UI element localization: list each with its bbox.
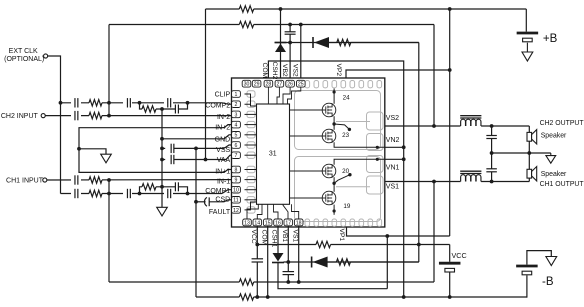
wire bottom bootstrap diode row [284,261,419,263]
pin 7 box [232,152,241,159]
terminal EXT CLK [44,54,48,58]
wire Q24-Q23 mid node (VS2) [333,116,335,130]
wire VAA row right [174,159,226,161]
transistor Q23 [322,129,336,143]
wire VS2 row [385,125,461,127]
node VB1 / rail1 [286,280,290,284]
node VN1 [402,157,406,161]
ground symbol GND net [157,207,168,216]
svg-text:-B: -B [542,276,554,288]
node EXT CLK / COMP2 net [59,101,63,105]
wire L1 to speaker [481,181,529,183]
node VSS dropper [194,147,198,151]
svg-text:23: 23 [342,132,350,139]
terminal CH2 INPUT [41,114,45,118]
pin 30 box (top) [242,80,251,87]
node GND row [160,137,164,141]
svg-text:VCC: VCC [250,230,257,244]
wire VS2 tap diagonal [334,124,349,129]
node COMP2 RC left [138,101,142,105]
svg-text:11: 11 [233,198,238,204]
capacitor C-C1a [71,189,81,199]
svg-text:+B: +B [543,33,558,45]
node IN-2 junction [107,114,111,118]
svg-text:VB1: VB1 [281,230,288,243]
svg-text:COMP2: COMP2 [205,102,230,109]
gray trace VS2 pad [336,121,370,123]
battery VCC [439,262,461,265]
capacitor C-OUT1 [491,153,493,169]
node VS1 / rail1 [297,280,301,284]
svg-text:14: 14 [254,220,260,226]
transistor Q20 [322,164,336,178]
resistor R-IN1 [89,176,102,184]
pin 16 box (bottom) [274,219,283,226]
speaker CH1 [528,153,530,169]
wire GND net vertical [161,109,163,207]
svg-text:1: 1 [235,92,238,98]
svg-text:18: 18 [296,220,302,226]
pin 9 box [232,176,241,183]
diode D-B2 (bootstrap, pointing left) [312,37,314,48]
wire CSD to pin 11 [209,200,231,202]
wire Q23 source to VN2 [334,142,385,147]
wire CSH1 link vertical [386,236,388,289]
svg-text:VS1: VS1 [291,230,298,243]
node VB1 / diode row [286,260,290,264]
wire VAA dropper vertical [205,9,207,160]
svg-text:28: 28 [266,82,272,88]
svg-text:IN+2: IN+2 [215,124,230,131]
svg-text:CH2 OUTPUT: CH2 OUTPUT [540,120,584,127]
gray trace VS1 pad [336,186,370,188]
wire COMP1 row [61,193,223,195]
diode D-CSH2 (up) [275,42,287,44]
svg-text:VN2: VN2 [386,137,400,144]
wire +B riser [449,9,451,236]
node VS2 tap [299,23,303,27]
wire Q20-Q19 mid node (VS1) [333,177,335,192]
pin 8 box [232,166,241,173]
svg-text:17: 17 [285,220,291,226]
node COMP1 RC left [138,192,142,196]
node VCC cap / -B rail [255,295,259,299]
svg-text:7: 7 [235,153,238,159]
node IN-1 junction [107,178,111,182]
wire pins 28-25 to block 31 [267,87,269,104]
pin 15 box (bottom) [263,219,272,226]
svg-text:VS1: VS1 [386,184,399,191]
pin 26 box (top) [286,80,295,87]
battery -B [516,265,538,268]
capacitor C-C2d (branch) [174,105,176,114]
svg-text:16: 16 [275,220,281,226]
wire VS1 tap diagonal [334,175,350,184]
svg-text:CH2 INPUT: CH2 INPUT [1,113,39,120]
svg-text:VSS: VSS [216,147,230,154]
wire left pins to block 31 [245,94,257,106]
node COM / -B rail [266,295,270,299]
pin 18 box (bottom) [294,219,303,226]
pin 4 box [232,121,241,128]
node VP1 / CSH1 link [385,234,389,238]
node zobel CH1 [490,180,494,184]
wire VP2 stub and row [346,70,450,78]
capacitor C-IN1 [71,175,81,185]
wire COMP2 row [61,102,223,104]
wire pins 13-18 to block 31 [247,204,258,219]
wire IN+2 row [79,125,232,173]
wire VSS row left [162,147,165,149]
ground symbol -B [546,257,557,266]
node IN+ ground tap [77,147,81,151]
svg-text:26: 26 [287,82,293,88]
capacitor C-C1d (branch) [174,182,176,191]
svg-text:4: 4 [235,123,238,129]
pin 27 box (top) [275,80,284,87]
wire CH1 input row [47,179,232,181]
svg-text:25: 25 [298,82,304,88]
svg-text:30: 30 [244,82,250,88]
pin 14 box (bottom) [253,219,262,226]
capacitor C-VSS [170,144,172,153]
node VB2 / diode row [288,41,292,45]
node VAA cap [160,158,164,162]
speaker CH2 [528,126,530,132]
wire to signal ground [79,149,106,154]
capacitor C-C1b (series) [123,189,132,199]
inductor L2 [461,119,481,126]
ground symbol +B [526,43,528,52]
wire VN1 row [385,158,404,160]
resistor R-VAA (top rail) [239,6,253,12]
wire VB2 to pin 26 [289,43,291,81]
driver IC block 31 [257,104,290,204]
terminal CH1 INPUT [43,178,47,182]
resistor R-B2 [329,42,337,44]
node VN2 [402,145,406,149]
wire branch return 1 [178,187,187,194]
capacitor C-C2b (series) [123,98,132,108]
node mid rail left [490,151,494,155]
svg-text:VAA: VAA [217,157,231,164]
wire VS2 to pin 25 [300,25,302,81]
wire CH2 input row [45,115,231,117]
svg-text:24: 24 [343,95,351,102]
node VCC battery / -B rail [448,295,452,299]
svg-text:27: 27 [277,82,283,88]
wire VSS to CSD vertical [195,148,197,297]
wire COMP1 upper branch [140,187,143,194]
pin 1 box [232,91,241,98]
svg-text:Speaker: Speaker [541,133,567,140]
resistor R-FB2 [239,21,253,29]
svg-text:15: 15 [265,220,271,226]
pin 13 box (bottom) [243,219,252,226]
svg-text:CLIP: CLIP [215,92,231,99]
ground symbol signal input [101,154,112,163]
svg-text:CSH2: CSH2 [271,62,278,80]
wire VN2 row [385,146,404,148]
svg-text:COM: COM [260,230,267,246]
node VN bus / -B rail [402,295,406,299]
wire VS1 pin 18 down [298,226,300,282]
svg-text:IN-1: IN-1 [217,178,230,185]
capacitor C-OUT2 [491,126,493,136]
pin 2 box [232,101,241,108]
diode D-CSH1 (down) [272,262,284,264]
wire feedback rail 1 (VS1-CH1) [109,281,434,283]
svg-text:IN-2: IN-2 [217,114,230,121]
node VS2 row junction [432,124,436,128]
pin 6 box [232,142,241,149]
resistor R-VCC [316,241,331,249]
node top-rail / CSH2 [279,7,283,11]
svg-text:IN+1: IN+1 [215,169,230,176]
wire L2 to speaker [481,125,529,127]
pin 12 box [232,207,241,214]
node COMP1 junction [107,192,111,196]
wire VS2 feedback row [109,24,434,26]
wire branch return [178,103,187,109]
node top-rail / +B drop [448,7,452,11]
resistor R-VSS [239,293,253,301]
pin 25 box (top) [297,80,306,87]
wire CSH1 pin 16 down [277,226,279,254]
pin 11 box [232,197,241,204]
wire Q20 source to VN1 [334,159,385,165]
node VCC row / riser [417,243,421,247]
wire COM rail to VN bus [268,61,403,147]
pin 17 box (bottom) [284,219,293,226]
wire bootstrap row 1 to riser [350,261,418,263]
svg-text:VP2: VP2 [335,64,342,77]
svg-text:EXT CLK: EXT CLK [9,48,38,55]
wire VCC row [257,244,449,246]
capacitor C-VAA [170,155,172,164]
svg-text:12: 12 [233,208,239,214]
resistor R-FB1 [239,278,253,286]
node COMP1 branch [160,185,164,189]
wire CSH1 below diode [278,263,387,289]
wire VCC pin 14 down [256,226,258,259]
svg-text:8: 8 [235,167,238,173]
battery +B [517,32,539,35]
wire +B top rail [206,8,527,10]
node VCC row [255,243,259,247]
svg-text:CH1 OUTPUT: CH1 OUTPUT [540,181,584,188]
wire COMP2 lower branch [140,103,143,109]
module lead-frame pads (gray) [247,81,383,227]
svg-text:9: 9 [235,178,238,184]
node COMP2 junction [107,101,111,105]
resistor R-C1b (branch) [142,184,156,190]
svg-text:GND: GND [215,137,231,144]
IC module outline [232,78,385,227]
svg-text:CH1 INPUT: CH1 INPUT [6,177,44,184]
node COMP1 RC right [186,192,190,196]
svg-text:COM: COM [261,63,268,79]
wire VP1 stub and row [347,227,450,236]
svg-text:(OPTIONAL): (OPTIONAL) [4,56,44,63]
wire speaker mid rail [492,152,551,154]
wire VCC battery to -B rail [449,272,451,297]
wire feedback to CH2 input vertical [108,25,110,116]
svg-text:6: 6 [235,143,238,149]
node CSD tap [194,200,198,204]
wire -B rail corner [525,275,528,297]
pin 10 box [232,186,241,193]
svg-text:COMP1: COMP1 [205,188,230,195]
svg-text:VS2: VS2 [291,64,298,77]
wire VS1 feedback vertical [433,182,435,283]
wire -B top to ground [527,251,551,265]
svg-text:3: 3 [235,112,238,118]
wire VCC battery top [449,245,451,262]
wire top bootstrap diode row [275,42,419,44]
wire EXT CLK [48,56,61,194]
wire VB1 pin 17 down [287,226,289,262]
diode D-B1 (bootstrap, pointing left) [311,257,313,268]
capacitor C-C1c (parallel, main row) [164,189,173,199]
node VP2 / +B riser [448,68,452,72]
wire bootstrap row to VCC riser [351,42,419,44]
transistor Q24 [322,103,336,117]
svg-text:VN1: VN1 [386,164,400,171]
node VB2 tap [288,23,292,27]
svg-text:2: 2 [235,102,238,108]
resistor R-C1a [89,190,102,198]
wire COM pin 15 down [267,226,269,297]
pin 3 box [232,111,241,118]
resistor R-IN2 [89,112,102,120]
node VSS cap [160,147,164,151]
wire Q24 drain up [333,89,335,104]
svg-text:CSD: CSD [215,196,230,203]
resistor R-B1 [328,261,337,263]
capacitor C-IN2 [71,111,81,121]
wire GND row [162,138,224,140]
wire Q19 source down [333,205,335,215]
gate wires from block 31 [290,109,323,111]
node branch mid / GND net top [156,108,175,110]
ground symbol speaker return [550,153,552,156]
svg-text:13: 13 [244,220,250,226]
pin 29 box (top) [252,80,261,87]
wire VS2 feedback drop to VS2 row [433,25,435,127]
capacitor C-B2 (bootstrap) [289,25,291,32]
capacitor C-C2a [71,98,81,108]
wire VS1 row [385,181,461,183]
svg-text:29: 29 [254,82,260,88]
wire +B drop [525,9,527,32]
svg-text:VB2: VB2 [281,64,288,77]
wire VAA row left [162,159,165,161]
transistor Q19 [322,191,336,205]
inductor L1 [461,175,481,182]
capacitor C-CSD (polarized) [196,201,206,203]
capacitor C-VCC [252,258,263,260]
svg-text:31: 31 [269,150,277,157]
wire -B rail [196,296,527,298]
svg-text:VS2: VS2 [386,115,399,122]
node mid rail / speakers [527,151,531,155]
wire CSH2 vertical [280,9,282,80]
wire VSS row right [174,147,224,149]
resistor R-C2a [89,99,102,107]
svg-text:VCC: VCC [452,251,467,260]
svg-text:VP1: VP1 [338,229,345,242]
resistor R-C2b (branch) [142,106,156,112]
node COMP2 RC right [186,101,190,105]
pin 28 box (top) [264,80,273,87]
svg-text:19: 19 [343,203,351,210]
wire VN bus down [403,147,405,297]
svg-text:10: 10 [233,188,239,194]
node VAA join [204,158,208,162]
svg-text:5: 5 [235,133,238,139]
wire CH1 feedback vertical [108,180,110,282]
svg-text:Speaker: Speaker [541,171,567,178]
capacitor C-C2c (parallel, main row) [164,98,173,108]
pin 5 box [232,132,241,139]
capacitor C-B1 (bootstrap) [287,262,289,272]
node VS1 feedback [432,180,436,184]
svg-text:FAULT: FAULT [209,209,231,216]
node zobel CH2 [490,124,494,128]
